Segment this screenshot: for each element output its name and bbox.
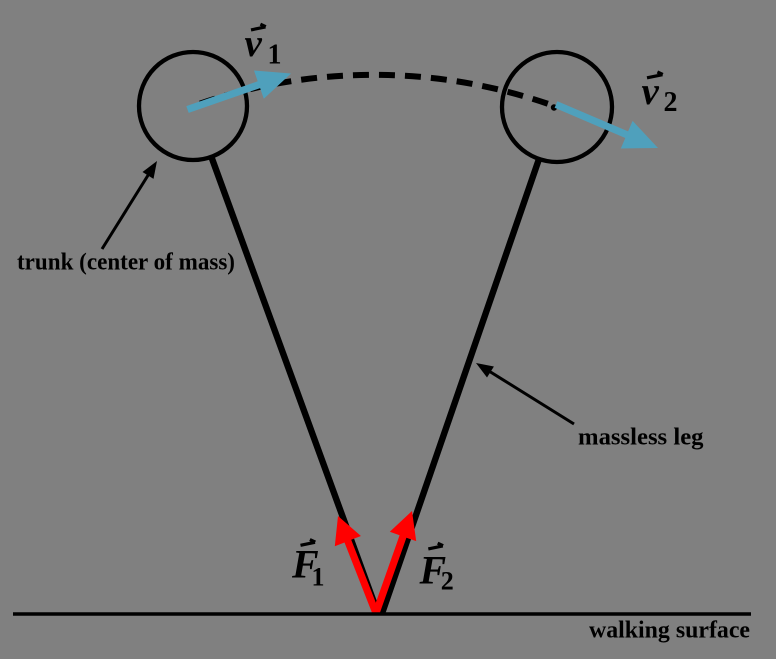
wire dashed trajectory arc: [193, 75, 557, 107]
label vector F1: [291, 540, 325, 592]
walking surface line: [13, 612, 751, 616]
massless leg right: [382, 159, 539, 614]
trunk circle 1 (left center of mass): [139, 52, 247, 160]
velocity arrow v1: [186, 71, 291, 113]
massless leg left: [212, 158, 378, 614]
svg-text:1: 1: [268, 39, 282, 70]
annotation arrow to leg: [476, 363, 574, 424]
svg-text:walking surface: walking surface: [589, 617, 750, 643]
svg-text:2: 2: [441, 567, 454, 596]
trunk circle 2 (right center of mass): [502, 52, 612, 162]
svg-text:massless leg: massless leg: [578, 425, 704, 451]
node dot at right trunk center: [551, 104, 557, 110]
velocity arrow v2: [555, 101, 658, 148]
svg-text:1: 1: [312, 563, 325, 592]
svg-text:2: 2: [664, 87, 678, 118]
force arrow F2: [373, 511, 417, 614]
annotation arrow to trunk: [102, 161, 157, 249]
label vector v2: [642, 70, 678, 118]
force arrow F1: [335, 516, 380, 614]
label vector F2: [419, 543, 454, 596]
svg-text:trunk (center of mass): trunk (center of mass): [17, 250, 235, 276]
label vector v1: [245, 22, 282, 70]
